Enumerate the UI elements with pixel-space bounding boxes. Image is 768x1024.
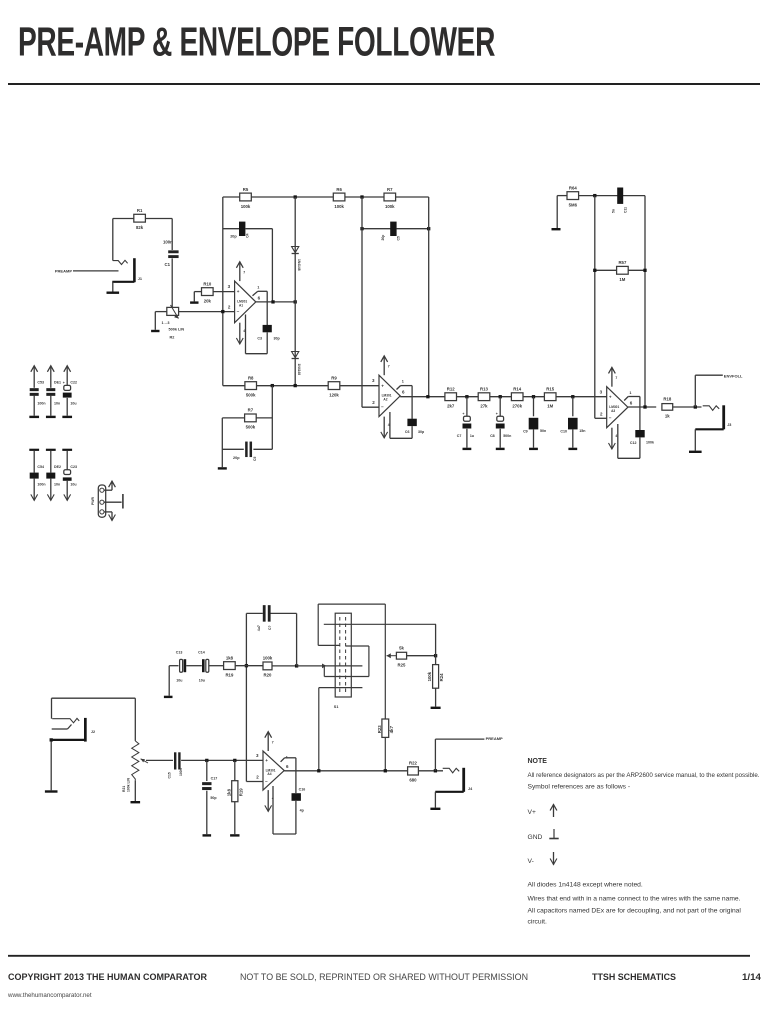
svg-text:PRE-AMP & ENVELOPE FOLLOWER: PRE-AMP & ENVELOPE FOLLOWER	[18, 19, 495, 65]
svg-text:20p: 20p	[230, 234, 237, 238]
svg-text:R13: R13	[480, 387, 488, 392]
svg-text:A1: A1	[239, 304, 243, 308]
svg-text:−: −	[381, 405, 384, 410]
svg-text:J4: J4	[468, 787, 473, 791]
svg-text:J3: J3	[727, 423, 731, 427]
svg-text:C54: C54	[37, 465, 44, 469]
svg-text:All reference designators as p: All reference designators as per the ARP…	[528, 772, 760, 779]
svg-text:C53: C53	[37, 381, 44, 385]
svg-text:4p: 4p	[300, 809, 305, 813]
svg-text:C8: C8	[490, 434, 495, 438]
svg-text:1k: 1k	[665, 414, 670, 419]
svg-text:V-: V-	[528, 858, 534, 865]
svg-text:100k: 100k	[241, 204, 251, 209]
svg-text:C17: C17	[211, 776, 218, 780]
svg-text:50p: 50p	[210, 796, 217, 800]
svg-text:27k: 27k	[480, 404, 488, 409]
svg-text:R2: R2	[170, 336, 175, 340]
svg-text:6: 6	[402, 389, 405, 394]
svg-text:10u: 10u	[70, 483, 76, 487]
svg-text:circuit.: circuit.	[528, 919, 547, 926]
svg-text:4k7: 4k7	[389, 725, 394, 733]
svg-text:680: 680	[409, 778, 417, 783]
svg-text:7: 7	[243, 271, 245, 275]
svg-text:4: 4	[615, 434, 617, 438]
svg-text:Symbol references are as follo: Symbol references are as follows -	[528, 783, 631, 790]
svg-text:C11: C11	[624, 207, 628, 213]
svg-text:S1: S1	[334, 705, 339, 709]
svg-text:500k: 500k	[246, 425, 256, 430]
svg-text:All diodes 1n4148 except where: All diodes 1n4148 except where noted.	[528, 882, 643, 889]
svg-text:R7: R7	[387, 187, 393, 192]
svg-text:C10: C10	[560, 430, 567, 434]
svg-text:C13: C13	[176, 650, 183, 654]
svg-text:J2: J2	[91, 730, 95, 734]
svg-text:3: 3	[256, 753, 259, 758]
svg-text:A3: A3	[611, 409, 615, 413]
svg-text:10u: 10u	[199, 678, 205, 682]
svg-text:ENVFOLL: ENVFOLL	[724, 373, 743, 378]
svg-text:7: 7	[388, 365, 390, 369]
svg-text:3: 3	[228, 284, 231, 289]
svg-text:4u7: 4u7	[257, 625, 261, 631]
svg-text:All capacitors named DEx are f: All capacitors named DEx are for decoupl…	[528, 907, 742, 914]
svg-text:+: +	[462, 412, 464, 416]
svg-text:+: +	[496, 412, 498, 416]
svg-text:C9: C9	[523, 430, 528, 434]
svg-text:R57: R57	[618, 260, 626, 265]
svg-text:C22: C22	[70, 381, 77, 385]
svg-text:COPYRIGHT 2013 THE HUMAN COMPA: COPYRIGHT 2013 THE HUMAN COMPARATOR	[8, 972, 207, 983]
svg-text:+: +	[265, 758, 268, 763]
svg-text:GND: GND	[528, 834, 543, 841]
svg-text:1/14: 1/14	[742, 972, 762, 983]
svg-text:C16: C16	[299, 788, 306, 792]
svg-text:C4: C4	[246, 233, 250, 237]
svg-text:2: 2	[256, 775, 259, 780]
svg-text:R14: R14	[513, 387, 521, 392]
svg-text:C23: C23	[70, 465, 77, 469]
svg-text:50n: 50n	[540, 429, 546, 433]
svg-text:R22: R22	[409, 761, 417, 766]
svg-text:R21: R21	[122, 786, 126, 792]
svg-text:270k: 270k	[512, 404, 522, 409]
svg-text:R24: R24	[439, 673, 444, 681]
svg-text:1: 1	[402, 380, 404, 384]
svg-text:C7: C7	[457, 434, 462, 438]
svg-text:C3: C3	[257, 337, 262, 341]
svg-text:5n: 5n	[612, 209, 616, 213]
svg-text:10n: 10n	[54, 483, 60, 487]
svg-text:100n: 100n	[37, 483, 45, 487]
svg-text:100k: 100k	[646, 440, 654, 444]
svg-text:R19: R19	[225, 672, 233, 677]
svg-text:15n: 15n	[579, 429, 585, 433]
svg-text:PREAMP: PREAMP	[486, 736, 503, 741]
svg-text:2: 2	[600, 411, 603, 416]
svg-text:V+: V+	[528, 809, 536, 816]
svg-text:100n: 100n	[163, 240, 173, 245]
svg-text:Wires that end with in a name: Wires that end with in a name connect to…	[528, 895, 741, 902]
svg-text:C6: C6	[405, 430, 410, 434]
svg-text:R12: R12	[447, 387, 455, 392]
svg-text:2k7: 2k7	[447, 404, 455, 409]
svg-text:2: 2	[372, 400, 375, 405]
svg-text:C5: C5	[253, 457, 257, 461]
svg-text:R15: R15	[546, 387, 554, 392]
svg-text:500n: 500n	[503, 434, 511, 438]
svg-text:1u: 1u	[470, 434, 474, 438]
svg-text:C14: C14	[198, 650, 205, 654]
svg-text:6: 6	[286, 764, 289, 769]
svg-text:DE1: DE1	[54, 381, 61, 385]
svg-text:5M6: 5M6	[569, 202, 578, 207]
svg-text:100k: 100k	[334, 204, 344, 209]
svg-text:1k8: 1k8	[226, 788, 231, 796]
svg-text:1: 1	[629, 391, 631, 395]
svg-text:6: 6	[630, 401, 633, 406]
svg-text:R8: R8	[248, 375, 254, 380]
svg-text:20k: 20k	[204, 298, 212, 303]
svg-text:120k: 120k	[329, 392, 339, 397]
svg-text:−: −	[237, 309, 240, 314]
svg-text:J1: J1	[138, 277, 142, 281]
svg-text:C?: C?	[268, 625, 272, 630]
svg-text:100n: 100n	[179, 768, 183, 776]
svg-text:PREAMP: PREAMP	[55, 268, 72, 273]
svg-text:30p: 30p	[274, 337, 281, 341]
svg-text:+: +	[237, 289, 240, 294]
svg-text:82k: 82k	[136, 225, 144, 230]
svg-text:1N4148: 1N4148	[297, 259, 301, 271]
svg-text:+: +	[381, 383, 384, 388]
svg-text:R20: R20	[264, 673, 272, 678]
svg-text:www.thehumancomparator.net: www.thehumancomparator.net	[7, 992, 92, 999]
svg-text:R23: R23	[377, 725, 382, 733]
svg-text:2: 2	[228, 305, 231, 310]
svg-text:A4: A4	[267, 772, 271, 776]
svg-text:TTSH SCHEMATICS: TTSH SCHEMATICS	[592, 972, 677, 983]
svg-text:C1: C1	[165, 262, 171, 267]
svg-text:R25: R25	[398, 663, 406, 668]
svg-text:7: 7	[272, 741, 274, 745]
svg-text:1N4148: 1N4148	[297, 364, 301, 376]
svg-text:500k: 500k	[246, 392, 256, 397]
svg-text:10n: 10n	[54, 402, 60, 406]
svg-text:R19: R19	[238, 788, 243, 796]
svg-text:1k8: 1k8	[226, 655, 234, 660]
svg-text:1M: 1M	[619, 277, 625, 282]
svg-text:100k: 100k	[427, 671, 432, 681]
svg-text:R18: R18	[663, 397, 671, 402]
svg-text:C12: C12	[630, 441, 637, 445]
svg-text:3: 3	[372, 378, 375, 383]
svg-text:30p: 30p	[418, 430, 425, 434]
svg-text:1→3: 1→3	[162, 321, 170, 325]
svg-text:1: 1	[257, 286, 259, 290]
svg-text:100k: 100k	[263, 656, 273, 661]
svg-text:C5: C5	[397, 236, 401, 240]
svg-text:+: +	[609, 394, 612, 399]
svg-text:−: −	[609, 416, 612, 421]
svg-text:R9: R9	[331, 375, 337, 380]
svg-text:R64: R64	[569, 185, 577, 190]
svg-text:3: 3	[600, 389, 603, 394]
svg-text:1M: 1M	[547, 404, 553, 409]
svg-text:NOTE: NOTE	[528, 758, 548, 765]
svg-text:C15: C15	[168, 772, 172, 778]
svg-text:R6: R6	[336, 187, 342, 192]
svg-text:100n: 100n	[37, 402, 45, 406]
svg-text:100k: 100k	[385, 204, 395, 209]
svg-text:10u: 10u	[176, 678, 182, 682]
svg-text:PWR: PWR	[91, 497, 95, 505]
svg-text:R10: R10	[203, 281, 211, 286]
svg-text:NOT TO BE SOLD, REPRINTED OR S: NOT TO BE SOLD, REPRINTED OR SHARED WITH…	[240, 972, 528, 983]
svg-text:20p: 20p	[381, 235, 385, 241]
svg-text:A2: A2	[383, 398, 387, 402]
svg-text:R5: R5	[243, 187, 249, 192]
svg-text:DE2: DE2	[54, 465, 61, 469]
svg-text:−: −	[265, 779, 268, 784]
svg-text:100k LIN: 100k LIN	[127, 778, 131, 792]
svg-text:R7: R7	[248, 408, 254, 413]
svg-text:10u: 10u	[70, 402, 76, 406]
svg-text:6: 6	[258, 295, 261, 300]
svg-text:5k: 5k	[399, 646, 404, 651]
svg-text:R1: R1	[137, 208, 143, 213]
svg-text:+: +	[63, 381, 65, 385]
svg-text:20p: 20p	[233, 456, 240, 460]
svg-text:7: 7	[615, 376, 617, 380]
svg-text:500k LIN: 500k LIN	[169, 328, 185, 332]
